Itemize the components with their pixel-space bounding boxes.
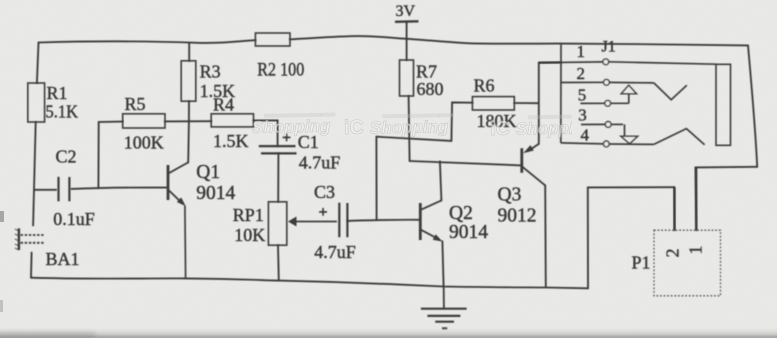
svg-text:3: 3 [578,106,587,125]
wire Q3 collector drop [544,185,547,287]
J1 bus [560,44,562,143]
wire Q2 collector riser [440,161,442,200]
wire bottom ground bus [31,278,588,289]
wire R7 node to Q3 base [410,161,522,165]
svg-text:R4: R4 [213,94,234,114]
wire R1 bottom to BA1 [33,122,36,226]
svg-text:RP1: RP1 [233,205,264,225]
wire P1 pin1 vertical [695,167,698,230]
edge mark left [0,211,4,222]
svg-text:0.1uF: 0.1uF [53,209,95,229]
wire RP1 bottom [277,245,280,281]
wire Q3 emitter top to J1 [539,61,561,63]
svg-text:R1: R1 [47,83,68,103]
svg-text:9014: 9014 [196,183,235,204]
svg-text:iC: iC [490,118,510,140]
wire right edge down to corner [748,45,757,166]
svg-text:100K: 100K [124,133,164,153]
wire top bus left segment [39,40,256,43]
resistor R6 [472,75,516,131]
capacitor C1 [259,130,341,173]
svg-text:P1: P1 [632,253,651,273]
bottom scan shadow [0,326,777,338]
svg-text:Q3: Q3 [498,185,522,206]
wire slant feedback horizontal [376,137,451,141]
J1 tip contact V [654,83,687,100]
svg-text:1.5K: 1.5K [213,131,249,151]
svg-text:R6: R6 [474,75,495,95]
power 3V [395,3,419,22]
svg-text:5.1K: 5.1K [46,102,79,122]
ground [421,287,467,329]
microphone BA1 [15,228,80,269]
J1 plug body [716,64,731,145]
wire to P1 pin2 [588,186,675,188]
svg-text:1: 1 [686,246,706,255]
resistor R4 [211,94,253,151]
svg-text:4: 4 [581,126,590,145]
svg-text:R5: R5 [125,94,146,114]
svg-text:Q2: Q2 [449,203,473,224]
wire R3 top lead [188,43,190,61]
svg-text:+: + [319,204,328,221]
transistor Q1 [168,162,236,278]
transistor Q3 [498,144,546,227]
svg-text:C2: C2 [56,147,77,167]
J1 ring contact ^ [654,129,705,145]
svg-text:10K: 10K [234,225,265,245]
wire R7 bottom lead [409,96,410,161]
resistor R7 [400,60,444,99]
resistor R1 [28,83,78,122]
svg-text:J1: J1 [602,39,616,56]
wire BA1 bottom [30,253,33,278]
capacitor C3 [314,182,356,262]
resistor R5 [123,94,165,153]
svg-text:680: 680 [417,79,444,99]
svg-text:Shopping: Shopping [252,117,331,137]
svg-text:9014: 9014 [449,222,488,243]
svg-text:9012: 9012 [498,206,537,227]
wire Q3 emitter vertical [538,63,540,144]
svg-text:4.7uF: 4.7uF [299,153,341,173]
connector P1 [632,167,721,295]
wire R3 bottom to Q1 collector node [187,101,190,162]
connector J1 [539,39,731,147]
wire C1 bottom to RP1 [277,154,279,202]
svg-text:2: 2 [577,64,586,83]
resistor R3 [181,61,235,101]
svg-text:C3: C3 [314,182,335,202]
svg-text:R3: R3 [200,62,221,82]
wire 3V stem [406,22,408,60]
wire R5 left drop [98,122,122,189]
transistor Q2 [420,200,488,243]
wire bottom right riser [587,187,589,288]
svg-text:2: 2 [663,249,683,258]
wire C3 right to Q2 base [348,220,420,221]
wire corner to P1 pin1 drop [696,166,758,169]
wire left edge down to R1 [37,43,39,84]
svg-text:5: 5 [578,85,587,104]
svg-text:BA1: BA1 [46,249,80,269]
wire R4 right to C1 [254,120,278,145]
J1 switch arrow up [621,85,636,94]
svg-text:Q1: Q1 [196,162,220,183]
svg-text:3V: 3V [396,3,416,20]
svg-text:R2 100: R2 100 [257,60,304,81]
wire P1 pin2 vertical [673,187,675,230]
potentiometer RP1 [233,202,337,245]
wire R5 right to R3 to R4 [165,120,211,122]
watermarks [252,113,600,140]
svg-text:1: 1 [577,42,586,61]
wire C2 to Q1 base [71,188,167,189]
svg-text:4.7uF: 4.7uF [314,242,356,262]
wire feedback vertical at x377 [375,137,377,220]
wire Q2 emitter to ground bus [442,241,443,286]
svg-text:iC: iC [344,117,364,139]
wire top bus right segment [290,36,748,45]
wire up to R6 left [451,102,472,140]
wire branch to C2 [35,189,57,191]
svg-text:Shopping: Shopping [370,117,449,137]
J1 switch arrow down [624,124,626,136]
capacitor C2 [53,147,95,230]
wire R6 right to Q3 emitter vertical [514,102,538,104]
resistor R2 [255,33,304,81]
